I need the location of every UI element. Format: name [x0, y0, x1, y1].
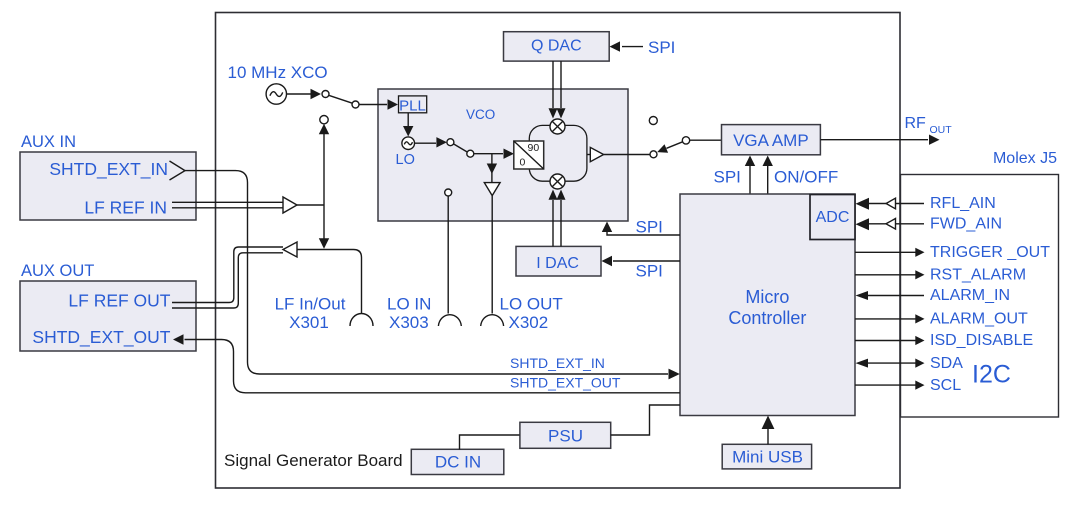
PSU box: [520, 422, 611, 448]
svg-text:X303: X303: [389, 313, 429, 332]
svg-text:LO IN: LO IN: [387, 295, 431, 314]
row SDA (bidirectional): [868, 362, 916, 364]
svg-text:DC IN: DC IN: [435, 453, 481, 472]
svg-text:X301: X301: [289, 313, 329, 332]
oscillator LO: [402, 137, 415, 150]
svg-text:Q DAC: Q DAC: [531, 38, 582, 55]
wire LF line to X301: [297, 250, 362, 314]
svg-text:FWD_AIN: FWD_AIN: [930, 216, 1002, 233]
svg-text:RFL_AIN: RFL_AIN: [930, 195, 996, 212]
svg-text:ADC: ADC: [816, 209, 850, 226]
connector AUX OUT box: [20, 281, 196, 351]
VGA AMP box: [722, 125, 821, 155]
switch S3 contact D: [650, 151, 657, 158]
wire VGA AMP to RF OUT: [820, 139, 928, 141]
svg-text:0: 0: [519, 156, 525, 168]
svg-text:LO OUT: LO OUT: [500, 295, 563, 314]
wire LF IN amp to junction: [297, 204, 324, 206]
svg-text:SCL: SCL: [930, 377, 961, 394]
switch S2 contact: [447, 139, 454, 146]
svg-text:TRIGGER _OUT: TRIGGER _OUT: [930, 244, 1050, 261]
svg-text:SHTD_EXT_IN: SHTD_EXT_IN: [49, 159, 168, 180]
connector AUX IN box: [20, 152, 196, 220]
wires Q DAC to top mixer: [552, 61, 554, 108]
svg-text:Molex J5: Molex J5: [993, 150, 1057, 167]
test point circle above X303: [445, 189, 452, 196]
svg-text:90: 90: [528, 142, 540, 154]
svg-text:Mini USB: Mini USB: [732, 448, 803, 467]
wire LF REF IN (double): [172, 202, 283, 208]
row ALARM_IN: [868, 295, 924, 297]
svg-text:PSU: PSU: [548, 427, 583, 446]
buffer amp to LO OUT (down triangle): [484, 183, 500, 196]
switch S1 arm: [329, 95, 353, 103]
wire PLL to LO oscillator: [407, 113, 409, 126]
connector X301 arc: [350, 314, 373, 327]
phase splitter 90/0 box: [514, 141, 544, 169]
VCO block box: [378, 89, 628, 221]
PLL block: [399, 96, 427, 113]
connector Molex J5 box: [901, 175, 1059, 418]
row TRIGGER _OUT: [855, 251, 916, 253]
svg-text:I2C: I2C: [972, 361, 1011, 389]
svg-text:AUX OUT: AUX OUT: [21, 262, 94, 280]
SPI wire controller to VGA AMP: [749, 166, 751, 194]
switch S3 arm with arrow: [667, 142, 683, 149]
board outline Signal Generator Board: [216, 13, 901, 489]
svg-text:RF: RF: [905, 115, 927, 132]
wire switch to VGA AMP: [690, 139, 722, 141]
open arrow SHTD_EXT_IN: [170, 161, 186, 180]
wire switch B to PLL: [359, 104, 387, 106]
wire SHTD_EXT_IN to controller: [185, 171, 668, 374]
svg-text:SPI: SPI: [636, 262, 663, 281]
svg-text:SHTD_EXT_OUT: SHTD_EXT_OUT: [32, 327, 170, 348]
amp LF REF OUT (left triangle): [283, 242, 297, 257]
wire DC IN to PSU: [460, 435, 520, 450]
svg-text:ON/OFF: ON/OFF: [774, 168, 838, 187]
row RFL_AIN: [869, 203, 924, 205]
mixer top (Q): [550, 119, 565, 134]
switch S3 pole F: [682, 137, 689, 144]
row RST_ALARM: [855, 274, 916, 276]
wire Mini USB to controller: [767, 429, 769, 445]
wire LF REF OUT double to AUX OUT: [172, 247, 283, 303]
svg-text:LF REF IN: LF REF IN: [84, 197, 167, 217]
wire SHTD_EXT_OUT from controller: [185, 340, 681, 393]
Q DAC box: [504, 32, 610, 61]
svg-text:I DAC: I DAC: [536, 255, 579, 272]
row ISD_DISABLE: [855, 340, 916, 342]
wire LO to switch S2: [415, 142, 437, 144]
SPI wire controller to VCO: [607, 232, 680, 235]
svg-text:Micro: Micro: [745, 287, 789, 307]
svg-text:ALARM_IN: ALARM_IN: [930, 287, 1010, 304]
switch S3 open contact E: [649, 117, 657, 125]
switch S1 contact A: [322, 91, 329, 98]
mixer bottom (I): [550, 174, 565, 189]
svg-text:Signal Generator Board: Signal Generator Board: [224, 451, 403, 470]
svg-text:SPI: SPI: [636, 218, 663, 237]
wire buffer to X302: [491, 196, 493, 314]
Micro Controller box: [680, 194, 855, 416]
svg-text:SPI: SPI: [714, 168, 741, 187]
SPI into Q DAC: [622, 46, 643, 48]
svg-text:X302: X302: [509, 313, 549, 332]
LF bidirectional vertical wire: [323, 132, 325, 240]
switch S1 pole B: [352, 101, 359, 108]
svg-text:AUX IN: AUX IN: [21, 133, 76, 151]
Mini USB box: [722, 444, 811, 469]
svg-text:OUT: OUT: [930, 124, 953, 136]
switch S2 pole: [467, 150, 474, 157]
switch S2 arm: [454, 144, 468, 152]
svg-text:LF REF OUT: LF REF OUT: [68, 291, 170, 311]
row SCL: [855, 384, 916, 386]
svg-text:RST_ALARM: RST_ALARM: [930, 267, 1026, 284]
connector X302 arc: [481, 315, 504, 326]
wire switch S2 to phase splitter: [474, 153, 503, 155]
ON/OFF wire controller to VGA AMP: [767, 166, 769, 194]
svg-text:SPI: SPI: [648, 38, 675, 57]
wire XCO to switch: [287, 93, 312, 95]
output amp triangle: [587, 154, 590, 156]
svg-text:VCO: VCO: [466, 107, 495, 122]
svg-text:SHTD_EXT_OUT: SHTD_EXT_OUT: [510, 375, 621, 391]
wire test point to X303: [447, 196, 449, 314]
svg-text:ISD_DISABLE: ISD_DISABLE: [930, 332, 1033, 349]
LO OUT branch arrow: [491, 154, 493, 183]
DC IN box: [411, 449, 504, 474]
mixer ring: [529, 125, 587, 181]
svg-text:SDA: SDA: [930, 355, 963, 372]
wires I DAC to bottom mixer: [552, 200, 554, 246]
svg-text:PLL: PLL: [399, 98, 426, 115]
SPI wire controller to I DAC: [613, 260, 680, 262]
row ALARM_OUT: [855, 318, 916, 320]
svg-text:Controller: Controller: [728, 308, 806, 328]
svg-text:VGA AMP: VGA AMP: [733, 131, 809, 150]
svg-text:SHTD_EXT_IN: SHTD_EXT_IN: [510, 355, 605, 371]
svg-text:LF In/Out: LF In/Out: [275, 295, 346, 314]
ADC box: [810, 195, 855, 240]
switch S1 contact C: [320, 116, 328, 124]
svg-text:ALARM_OUT: ALARM_OUT: [930, 311, 1028, 328]
svg-text:LO: LO: [396, 152, 415, 168]
I DAC box: [516, 246, 601, 276]
svg-text:10 MHz XCO: 10 MHz XCO: [228, 63, 328, 82]
wire amp out to switch S3: [604, 154, 650, 156]
amp LF REF IN (right triangle): [283, 197, 297, 213]
connector X303 arc: [438, 315, 461, 326]
row FWD_AIN: [869, 223, 924, 225]
wire PSU to controller: [611, 405, 680, 435]
